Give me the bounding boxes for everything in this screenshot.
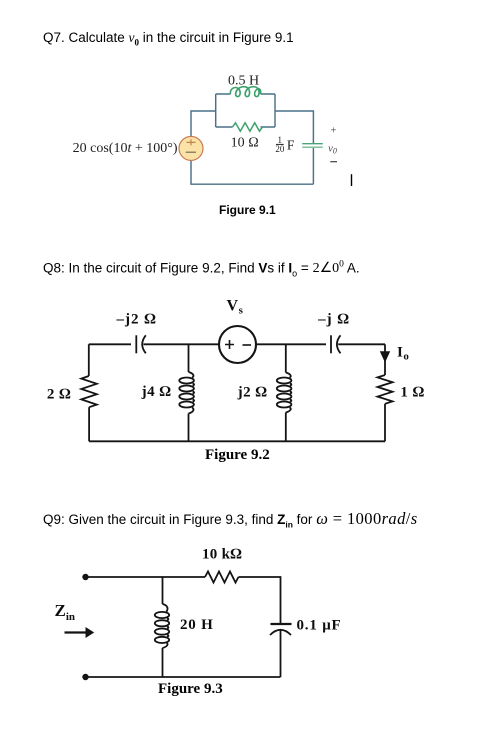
- source Vs circle: [219, 326, 256, 363]
- wire: top rail cap to source: [144, 343, 220, 345]
- wire: j2 branch bottom: [285, 413, 287, 442]
- capacitor -j curved plate: [337, 335, 341, 353]
- wire: bottom rail: [89, 440, 385, 442]
- resistor 1ohm zigzag: [378, 375, 393, 404]
- resistor R1 10ohm zigzag: [233, 123, 263, 131]
- svg-text:Zin: Zin: [55, 601, 76, 623]
- inductor 20H loops: [155, 612, 169, 618]
- question Q7 text: [43, 30, 294, 48]
- terminal dot bottom: [82, 674, 88, 680]
- wire: top rail resistor to right corner: [239, 577, 281, 624]
- question Q9 text: [43, 509, 418, 530]
- resistor 2ohm zigzag: [81, 376, 97, 407]
- inductor j4 loops: [179, 378, 194, 384]
- svg-text:10 kΩ: 10 kΩ: [202, 547, 242, 563]
- capacitor C1 1/20F top plate: [302, 143, 323, 145]
- wire: j4 branch top: [188, 344, 190, 372]
- capacitor C1 1/20F bottom plate: [302, 146, 323, 148]
- arrow Zin shaft: [65, 631, 88, 633]
- wire: top rail right segment: [338, 343, 385, 345]
- wire: top rail left to resistor: [86, 576, 206, 578]
- wire: parallel box left vertical: [215, 94, 217, 127]
- capacitor 0.1uF top plate: [271, 623, 292, 625]
- wire: bottom rail: [191, 161, 313, 185]
- source minus: [243, 344, 252, 346]
- wire: box bottom rail segments around resistor: [216, 126, 275, 128]
- terminal dot top: [82, 574, 88, 580]
- wire: inductor branch bottom: [162, 648, 164, 677]
- source plus sign: [186, 139, 195, 145]
- source plus: [225, 340, 234, 349]
- wire: source top to parallel box left: [191, 111, 216, 137]
- caption Figure 9.1: [219, 203, 276, 217]
- caption Figure 9.2: [205, 447, 270, 464]
- source minus sign: [186, 151, 196, 153]
- wire: left branch bottom: [88, 407, 90, 441]
- inductor j2 loops: [277, 378, 292, 384]
- wire: capacitor bottom to bottom rail: [312, 148, 314, 184]
- inductor j4 coil hooks: [189, 372, 195, 414]
- wire: j2 branch top: [285, 344, 287, 372]
- wire: right branch bottom: [384, 404, 386, 442]
- label 1/20 F fraction bar: [276, 143, 284, 145]
- wire: left branch top: [88, 344, 90, 376]
- wire: box right to capacitor branch top: [275, 111, 313, 143]
- label minus output: [330, 161, 337, 163]
- capacitor -j flat plate: [330, 335, 332, 353]
- wire: parallel box right vertical: [274, 94, 276, 127]
- wire: right branch below capacitor: [280, 630, 282, 677]
- arrow Zin head: [86, 627, 95, 638]
- capacitor -j2 curved plate: [142, 335, 146, 353]
- source Vs1 circle: [179, 136, 203, 160]
- svg-text:20 H: 20 H: [180, 617, 214, 633]
- inductor 20H coil hooks: [163, 604, 169, 648]
- wire: top rail left segment: [89, 343, 131, 345]
- wire: bottom rail: [86, 676, 281, 678]
- inductor L1 0.5H coil: [230, 87, 260, 97]
- capacitor 0.1uF curved plate: [270, 630, 291, 635]
- question Q8 text: [43, 260, 360, 278]
- wire: right branch top: [384, 344, 386, 375]
- wire: j4 branch bottom: [188, 414, 190, 442]
- wire: box top rail segments around inductor: [216, 93, 275, 95]
- arrow Io head: [380, 351, 390, 362]
- svg-text:0.1 μF: 0.1 μF: [297, 618, 342, 634]
- wire: top rail source to -j cap: [256, 343, 326, 345]
- text cursor bar: [351, 174, 353, 186]
- caption Figure 9.3: [158, 681, 223, 698]
- resistor 10k zigzag: [205, 572, 239, 583]
- inductor j2 coil hooks: [286, 373, 292, 413]
- capacitor -j2 flat plate: [135, 335, 137, 353]
- wire: inductor branch top: [162, 577, 164, 604]
